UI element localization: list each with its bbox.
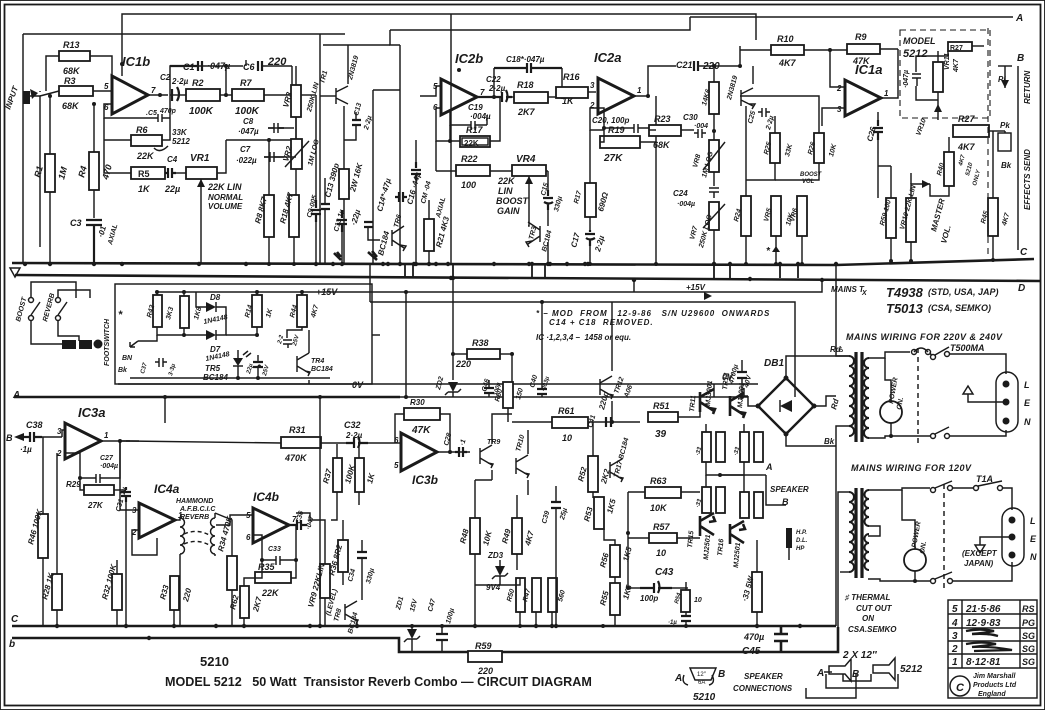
svg-text:C14*·47µ: C14*·47µ xyxy=(375,177,393,213)
capacitor C34 xyxy=(357,552,367,558)
svg-text:68K: 68K xyxy=(63,66,81,76)
svg-text:C19: C19 xyxy=(468,103,483,112)
svg-text:BC184: BC184 xyxy=(347,612,359,635)
svg-text:220: 220 xyxy=(455,359,471,369)
svg-text:TR5: TR5 xyxy=(205,364,221,373)
resistor R20 690 xyxy=(585,183,596,217)
svg-text:SPEAKER: SPEAKER xyxy=(744,672,783,681)
svg-text:22K: 22K xyxy=(136,151,155,161)
svg-text:C24: C24 xyxy=(673,189,688,198)
svg-text:5212: 5212 xyxy=(900,664,923,675)
svg-text:VOL.: VOL. xyxy=(939,224,953,244)
svg-text:Rd: Rd xyxy=(830,345,842,354)
svg-text:10K: 10K xyxy=(481,529,494,547)
svg-text:SG: SG xyxy=(1022,657,1035,667)
node A right bus xyxy=(690,16,1013,18)
svg-text:R27: R27 xyxy=(958,114,976,124)
svg-text:4: 4 xyxy=(951,618,958,629)
svg-text:2N3819: 2N3819 xyxy=(726,75,739,102)
svg-text:Products Ltd: Products Ltd xyxy=(973,682,1017,689)
svg-text:470p: 470p xyxy=(159,108,177,115)
bottom printed title xyxy=(165,654,592,689)
wire vr4 wiper xyxy=(528,195,529,226)
wire R6 right xyxy=(162,118,170,140)
svg-text:TR13: TR13 xyxy=(722,372,730,390)
svg-text:T4938: T4938 xyxy=(886,285,924,300)
svg-text:MODEL: MODEL xyxy=(903,36,936,46)
transistor TR11 xyxy=(700,389,715,414)
potentiometer VR11 xyxy=(933,62,943,92)
resistor R54 xyxy=(681,590,690,612)
svg-text:1K: 1K xyxy=(138,184,151,194)
svg-text:BC184: BC184 xyxy=(376,230,391,257)
svg-text:C: C xyxy=(1020,247,1028,258)
svg-text:22µ: 22µ xyxy=(164,184,180,194)
svg-text:R29: R29 xyxy=(66,480,81,489)
wire right column xyxy=(1017,66,1019,250)
svg-text:C14 + C18 REMOVED.: C14 + C18 REMOVED. xyxy=(549,318,654,327)
transistor TR12 xyxy=(600,376,613,399)
svg-text:·01: ·01 xyxy=(96,224,108,238)
svg-text:R37: R37 xyxy=(321,467,334,484)
svg-text:·22µ: ·22µ xyxy=(349,208,362,226)
resistor R30 xyxy=(404,408,440,420)
svg-text:IC1a: IC1a xyxy=(855,62,882,77)
resistor R37 xyxy=(333,458,342,492)
svg-text:IC3a: IC3a xyxy=(78,405,105,420)
svg-text:T500MA: T500MA xyxy=(950,343,985,353)
svg-text:C13: C13 xyxy=(353,102,363,116)
svg-text:2 X 12″: 2 X 12″ xyxy=(842,650,878,661)
svg-text:2K7: 2K7 xyxy=(251,595,264,613)
svg-text:IC1b: IC1b xyxy=(122,54,150,69)
svg-text:T1A: T1A xyxy=(976,474,993,484)
svg-text:R35: R35 xyxy=(258,562,276,572)
resistor R47 xyxy=(532,578,541,612)
svg-text:5: 5 xyxy=(952,604,958,615)
svg-text:1M LOG: 1M LOG xyxy=(307,138,321,166)
svg-text:R33: R33 xyxy=(158,583,171,600)
svg-text:N: N xyxy=(1030,552,1037,562)
svg-text:250K LOG: 250K LOG xyxy=(698,213,714,249)
wire input to R3 xyxy=(40,91,59,96)
svg-text:4K7: 4K7 xyxy=(953,58,960,73)
svg-text:22K: 22K xyxy=(261,588,280,598)
svg-text:1: 1 xyxy=(952,657,958,668)
transistor TR14 xyxy=(610,459,623,482)
svg-text:C46: C46 xyxy=(481,378,491,392)
svg-text:100: 100 xyxy=(461,180,476,190)
resistor R49 xyxy=(512,518,522,554)
svg-text:LIN: LIN xyxy=(498,186,513,196)
svg-text:3: 3 xyxy=(837,105,842,114)
capacitor C26 xyxy=(873,120,883,140)
wire 0V inside box xyxy=(130,377,330,379)
svg-text:C40: C40 xyxy=(529,374,539,388)
wire C bus top section xyxy=(12,263,836,265)
svg-text:B: B xyxy=(6,433,13,443)
svg-text:TR10: TR10 xyxy=(515,434,526,452)
svg-text:100K: 100K xyxy=(189,106,214,117)
resistor R53 xyxy=(594,497,604,529)
svg-text:R9: R9 xyxy=(855,32,867,42)
svg-text:BN: BN xyxy=(122,355,133,362)
potentiometer VR9 xyxy=(320,564,330,598)
wire box top rail xyxy=(157,291,330,293)
svg-text:5: 5 xyxy=(394,461,399,470)
svg-text:C30: C30 xyxy=(683,113,698,122)
resistor R27a xyxy=(948,42,972,51)
capacitor C0.1 xyxy=(681,616,691,621)
svg-text:R16: R16 xyxy=(563,72,581,82)
svg-text:TR16: TR16 xyxy=(717,538,725,556)
svg-text:RETURN: RETURN xyxy=(1023,70,1032,104)
resistor R55 xyxy=(610,583,620,615)
svg-text:C38: C38 xyxy=(26,420,43,430)
svg-text:Jim Marshall: Jim Marshall xyxy=(973,673,1016,680)
svg-text:C18*·047µ: C18*·047µ xyxy=(506,55,545,64)
capacitor C9 xyxy=(311,200,321,222)
svg-text:ZD1: ZD1 xyxy=(395,596,405,612)
svg-text:330µ: 330µ xyxy=(553,196,564,213)
wire box to D bus xyxy=(372,334,380,336)
wire feedback lower xyxy=(104,118,131,173)
transformer T1 primary winding xyxy=(864,358,869,438)
svg-text:C21: C21 xyxy=(676,60,693,70)
wire IC1a feedback xyxy=(830,50,845,87)
mains connector xyxy=(996,372,1018,432)
svg-text:R22: R22 xyxy=(461,154,478,164)
svg-text:R10: R10 xyxy=(777,34,794,44)
svg-text:C45: C45 xyxy=(742,646,761,657)
resistor R46 xyxy=(38,514,48,558)
capacitor C41 220p xyxy=(606,417,611,427)
svg-text:C43: C43 xyxy=(655,567,674,578)
potentiometer VR2 xyxy=(291,139,302,169)
svg-text:33K: 33K xyxy=(172,128,188,137)
svg-text:A: A xyxy=(674,673,682,684)
svg-text:ON: ON xyxy=(862,614,874,623)
svg-text:B: B xyxy=(718,669,725,680)
svg-text:R27: R27 xyxy=(950,45,963,52)
svg-text:·004: ·004 xyxy=(694,123,708,130)
wire to next stage xyxy=(315,95,317,200)
potentiometer VR5 xyxy=(771,196,781,236)
resistor R43 xyxy=(180,296,189,328)
switch S2b xyxy=(931,579,936,584)
svg-text:7: 7 xyxy=(480,88,485,97)
svg-text:SG: SG xyxy=(1022,631,1035,641)
svg-text:MJ3001: MJ3001 xyxy=(737,382,746,408)
svg-text:A: A xyxy=(1015,13,1023,24)
potentiometer VR10 xyxy=(906,198,916,242)
wire R5-VR1 xyxy=(176,172,186,174)
svg-text:R31: R31 xyxy=(289,425,306,435)
resistor R48 xyxy=(470,518,480,554)
svg-text:A.F.B.C.I.C: A.F.B.C.I.C xyxy=(179,506,216,513)
wire boost column xyxy=(745,106,747,196)
svg-text:C26: C26 xyxy=(865,125,878,142)
svg-text:VR7: VR7 xyxy=(689,224,700,240)
transformer T2 secondary xyxy=(849,492,854,572)
wire R3 to IC1b xyxy=(93,90,112,92)
resistor R17b xyxy=(709,82,719,114)
svg-text:C20, 100p: C20, 100p xyxy=(592,116,629,125)
svg-text:VR1: VR1 xyxy=(190,153,210,164)
fuse xyxy=(912,350,917,355)
svg-text:47K: 47K xyxy=(411,425,431,436)
svg-text:D.L.: D.L. xyxy=(796,538,808,544)
speaker line xyxy=(766,475,786,505)
svg-text:15V: 15V xyxy=(409,597,419,612)
svg-text:5: 5 xyxy=(433,82,438,91)
wire VR1 wiper down xyxy=(200,200,202,264)
wire IC2b input lower xyxy=(436,108,450,141)
resistor R59v xyxy=(886,198,896,238)
svg-text:INPUT: INPUT xyxy=(3,84,20,111)
svg-text:T5013: T5013 xyxy=(886,301,924,316)
wire switch loop xyxy=(31,282,76,298)
svg-text:C6: C6 xyxy=(243,62,255,72)
capacitor C2-2 xyxy=(283,335,292,348)
wire amp verticals xyxy=(474,600,476,626)
svg-text:2·2µ: 2·2µ xyxy=(488,84,506,93)
svg-text:2·2µ: 2·2µ xyxy=(765,115,776,131)
op-amp IC3b xyxy=(401,433,437,471)
svg-text:Bk: Bk xyxy=(1001,161,1012,170)
svg-text:6A: 6A xyxy=(698,680,705,686)
wire IC3a out xyxy=(101,440,130,442)
svg-text:TR11: TR11 xyxy=(689,395,697,412)
svg-text:2·2µ: 2·2µ xyxy=(363,115,374,131)
svg-text:CSA.SEMKO: CSA.SEMKO xyxy=(848,625,897,634)
junction dots C bus xyxy=(23,262,838,266)
svg-text:10: 10 xyxy=(562,433,572,443)
svg-text:C17: C17 xyxy=(569,231,582,248)
wire output node xyxy=(148,94,168,96)
svg-text:MJ2501: MJ2501 xyxy=(733,542,742,568)
HP DL HP tiny xyxy=(786,528,792,548)
svg-text:R23: R23 xyxy=(654,114,671,124)
svg-text:TR15: TR15 xyxy=(687,530,695,548)
ground symbol xyxy=(968,394,1006,402)
svg-text:TR9: TR9 xyxy=(487,439,500,446)
svg-text:·047µ: ·047µ xyxy=(238,127,259,136)
svg-text:+15V: +15V xyxy=(686,283,706,292)
svg-text:D: D xyxy=(1018,283,1025,294)
svg-text:100µ: 100µ xyxy=(445,608,456,625)
svg-text:25µ: 25µ xyxy=(559,507,569,521)
svg-text:R7: R7 xyxy=(240,78,252,88)
svg-text:D8: D8 xyxy=(210,293,221,302)
svg-text:330µ: 330µ xyxy=(365,568,376,585)
svg-text:BOOST: BOOST xyxy=(496,196,530,206)
svg-text:1N4148: 1N4148 xyxy=(203,314,229,326)
svg-text:A: A xyxy=(12,390,20,401)
svg-text:R61: R61 xyxy=(558,406,575,416)
wire D bus xyxy=(15,275,1040,281)
ink scribbles near C bus xyxy=(334,252,341,260)
resistor R21 xyxy=(424,219,434,251)
svg-text:X: X xyxy=(861,290,868,297)
speaker connections bottom xyxy=(674,650,923,703)
svg-text:Rd: Rd xyxy=(829,397,841,411)
svg-text:AXIAL: AXIAL xyxy=(435,196,447,219)
svg-text:R3: R3 xyxy=(64,76,76,86)
svg-text:R1: R1 xyxy=(32,165,45,179)
svg-text:VR8: VR8 xyxy=(692,153,702,168)
wire top feedback bus xyxy=(122,14,756,64)
svg-text:England: England xyxy=(978,691,1006,698)
potentiometer VR7 xyxy=(709,202,719,230)
svg-text:IC2a: IC2a xyxy=(594,50,621,65)
wire IC2a pin2 down xyxy=(590,108,604,130)
svg-text:R51: R51 xyxy=(653,401,670,411)
svg-text:C47: C47 xyxy=(427,597,437,612)
svg-text:10K: 10K xyxy=(828,142,838,157)
svg-text:5: 5 xyxy=(104,82,109,91)
resistor R44b xyxy=(355,458,364,492)
svg-text:·1µ: ·1µ xyxy=(668,620,677,626)
capacitor C39 xyxy=(551,502,561,508)
resistor R14 xyxy=(252,295,262,327)
svg-text:470µ: 470µ xyxy=(743,632,764,642)
capacitor C22u xyxy=(254,362,260,367)
svg-text:ON.: ON. xyxy=(896,397,905,411)
svg-text:VR10: VR10 xyxy=(915,118,928,137)
switch S2a xyxy=(931,488,936,493)
resistor R15 xyxy=(339,169,349,199)
svg-text:MJ2501: MJ2501 xyxy=(703,534,712,560)
svg-text:ONLY: ONLY xyxy=(972,168,982,186)
svg-text:C: C xyxy=(11,614,19,625)
svg-text:27K: 27K xyxy=(87,501,104,510)
wire left column xyxy=(39,91,41,92)
mains connector 2 xyxy=(1002,508,1024,566)
emitter resistors top pair xyxy=(702,432,711,462)
svg-text:100p: 100p xyxy=(640,594,658,603)
svg-text:5210: 5210 xyxy=(200,654,229,669)
svg-text:R13: R13 xyxy=(63,40,80,50)
svg-text:SPEAKER: SPEAKER xyxy=(770,485,809,494)
svg-text:5210: 5210 xyxy=(693,692,716,703)
wire 0V rail mid xyxy=(118,383,758,385)
wire IC3a to IC4a xyxy=(62,430,65,437)
wire +15V rail out xyxy=(330,280,822,292)
svg-text:RS: RS xyxy=(1022,604,1035,614)
svg-text:C: C xyxy=(956,682,965,694)
svg-text:C28: C28 xyxy=(443,432,453,446)
svg-text:33K: 33K xyxy=(784,142,794,157)
wire bridge to transformer xyxy=(786,356,849,378)
svg-text:IC ·1,2,3,4 – 1458 or equ.: IC ·1,2,3,4 – 1458 or equ. xyxy=(536,333,631,342)
svg-text:2: 2 xyxy=(836,84,842,93)
wire verticals xyxy=(164,397,166,423)
svg-text:R49: R49 xyxy=(500,527,513,544)
svg-text:PG: PG xyxy=(1022,618,1035,628)
svg-text:1N4148: 1N4148 xyxy=(205,351,231,363)
wire IC2a out xyxy=(634,66,676,96)
svg-text:C27: C27 xyxy=(100,455,114,462)
svg-text:1K8: 1K8 xyxy=(193,306,203,320)
svg-text:ZD3: ZD3 xyxy=(487,551,504,560)
resistor R36 xyxy=(338,540,348,572)
svg-text:R62: R62 xyxy=(228,593,241,610)
potentiometer VR8 xyxy=(709,140,719,172)
svg-text:MAINS WIRING FOR 120V: MAINS WIRING FOR 120V xyxy=(851,463,972,473)
svg-text:21·5·86: 21·5·86 xyxy=(965,604,1001,615)
wire T1 taps xyxy=(868,352,910,358)
svg-text:100K: 100K xyxy=(235,106,260,117)
resistor R62 xyxy=(240,586,249,618)
svg-text:BOOST: BOOST xyxy=(15,296,28,323)
svg-text:A: A xyxy=(816,668,824,679)
transistor TR13 xyxy=(730,393,745,418)
resistor R8 xyxy=(264,195,274,237)
svg-text:3: 3 xyxy=(57,427,62,436)
svg-text:1M: 1M xyxy=(56,165,69,180)
resistor R34 xyxy=(227,556,237,590)
svg-text:R4: R4 xyxy=(76,165,89,179)
svg-text:R48: R48 xyxy=(458,527,471,544)
resistor R40 xyxy=(944,152,954,186)
svg-text:C4: C4 xyxy=(167,155,178,164)
resistor R32 xyxy=(112,574,122,610)
svg-text:MODEL 5212 50 Watt Transist: MODEL 5212 50 Watt Transistor Reverb Com… xyxy=(165,675,592,689)
transistor TR3 xyxy=(526,222,540,247)
svg-text:(STD, USA, JAP): (STD, USA, JAP) xyxy=(928,287,999,297)
emitter resistors lower pair xyxy=(702,487,711,513)
wire TR17 column xyxy=(627,492,629,588)
thermal cutout note xyxy=(844,593,897,634)
svg-text:R6: R6 xyxy=(136,125,148,135)
svg-text:3·3µ: 3·3µ xyxy=(168,363,177,377)
resistor R33 xyxy=(170,576,179,610)
svg-text:EFFECTS SEND: EFFECTS SEND xyxy=(1023,149,1032,210)
wire verticals topleft xyxy=(245,60,247,66)
svg-text:R21 4K3: R21 4K3 xyxy=(434,215,451,248)
power on lamp xyxy=(880,401,902,423)
svg-text:·004µ: ·004µ xyxy=(677,201,695,208)
transistor TR10 xyxy=(516,455,529,478)
svg-text:C8: C8 xyxy=(243,117,254,126)
svg-text:·047µ: ·047µ xyxy=(903,70,910,88)
svg-text:C2: C2 xyxy=(160,73,171,82)
resistor R560 xyxy=(548,578,557,612)
svg-text:R57: R57 xyxy=(653,522,671,532)
svg-text:IC2b: IC2b xyxy=(455,51,483,66)
svg-text:L: L xyxy=(1030,516,1036,526)
wire bridge dc out xyxy=(814,396,836,406)
dashed model box xyxy=(900,30,990,118)
resistor R50 xyxy=(516,578,525,612)
capacitor C31 xyxy=(121,487,131,502)
wire T2 taps xyxy=(868,488,930,490)
svg-text:Bk: Bk xyxy=(824,437,835,446)
svg-text:R56: R56 xyxy=(598,551,611,568)
svg-text:TR8: TR8 xyxy=(333,608,343,623)
svg-text:560: 560 xyxy=(557,589,567,602)
svg-text:*: * xyxy=(118,309,123,321)
power box xyxy=(115,284,372,384)
resistor R1 xyxy=(45,154,55,192)
svg-text:VOLUME: VOLUME xyxy=(208,202,243,211)
svg-text:R53: R53 xyxy=(582,505,595,522)
svg-text:*: * xyxy=(766,246,771,257)
svg-text:BC184: BC184 xyxy=(311,366,333,373)
svg-text:1K: 1K xyxy=(562,96,575,106)
svg-text:R18: R18 xyxy=(517,80,534,90)
